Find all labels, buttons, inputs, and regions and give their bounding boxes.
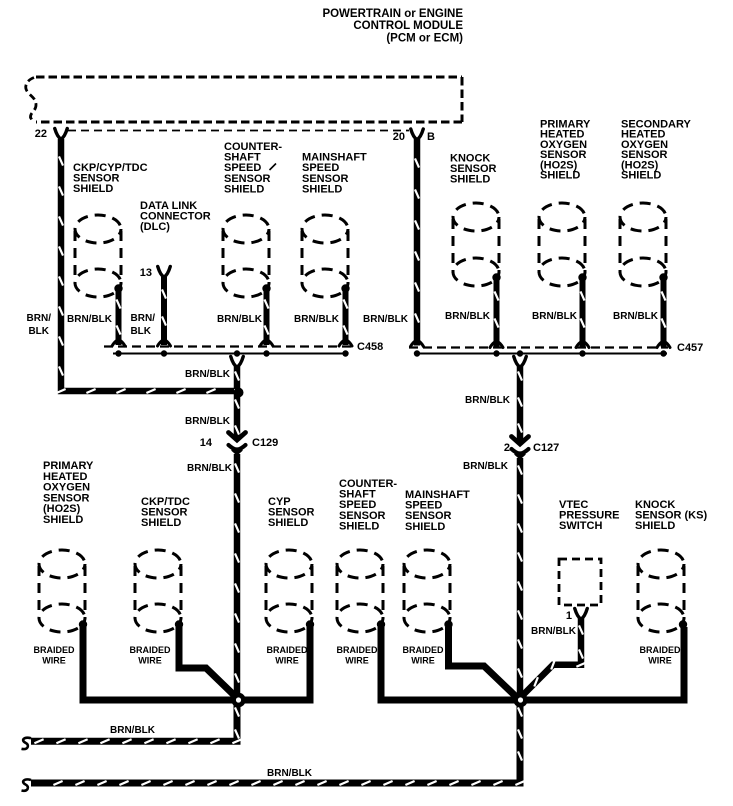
BRN/BLK label (C458 down-wire) — [185, 369, 231, 380]
BRN/BLK label (below C127) — [463, 461, 509, 472]
pin 20 label — [393, 131, 405, 143]
svg-text:BRN/BLK: BRN/BLK — [110, 725, 156, 736]
CYP sensor shield label — [268, 496, 315, 529]
node at secondary wire on C457 — [660, 350, 666, 356]
PCM connector pin-row dashed line — [68, 130, 409, 132]
wire BRN/BLK from junction to C129 — [235, 392, 239, 439]
mainshaft speed sensor shield label — [302, 152, 367, 196]
BRN/BLK label (above C129) — [185, 416, 231, 427]
wire BRN/BLK from secondary HO2S shield — [662, 279, 666, 347]
in-line connector C129 — [229, 433, 246, 454]
svg-text:14: 14 — [200, 437, 213, 449]
junction node (pin22 wire joins) — [234, 388, 244, 398]
VTEC pressure switch box (dashed) — [559, 559, 601, 605]
braided wire label (knock KS) — [639, 645, 681, 666]
CKP/CYP/TDC sensor shield label — [73, 162, 148, 195]
DLC pin 13 label — [140, 267, 152, 279]
wire BRN/BLK from primary HO2S shield — [581, 279, 585, 347]
svg-text:WIRE: WIRE — [411, 656, 435, 666]
node at DLC wire on C458 — [161, 350, 167, 356]
connector C458 dashed line — [104, 345, 352, 347]
fork terminal below C457 — [514, 357, 527, 368]
PCM/ECM module box (dashed) — [26, 77, 462, 123]
pin B wire foot at C457 — [411, 340, 424, 347]
secondary HO2S wire foot at C457 — [657, 341, 670, 348]
pin 14 label — [200, 437, 213, 449]
pin B fork terminal — [411, 129, 424, 140]
BRN/BLK label (mainshaft) — [294, 314, 340, 325]
svg-text:13: 13 — [140, 267, 152, 279]
knock sensor shield label — [450, 153, 497, 186]
svg-text:BRN/BLK: BRN/BLK — [187, 463, 233, 474]
break squiggle (bottom-left wire end) — [22, 738, 32, 749]
counter-shaft (lower) label — [339, 478, 397, 532]
shield mainshaft speed sensor (lower) — [404, 550, 453, 632]
svg-text:(DLC): (DLC) — [140, 221, 170, 233]
pin 2 label — [504, 442, 510, 454]
svg-text:20: 20 — [393, 131, 405, 143]
svg-text:WIRE: WIRE — [275, 656, 299, 666]
braided wire bus (lower-right group) — [381, 627, 684, 700]
shield knock sensor (upper) — [453, 203, 501, 286]
svg-text:BRN/BLK: BRN/BLK — [445, 311, 491, 322]
CKP/TDC sensor shield label — [141, 496, 190, 529]
node at primary wire on C457 — [579, 350, 585, 356]
svg-text:BRN/: BRN/ — [27, 313, 52, 324]
wire BRN/BLK to left harness (from lower-right junction) — [31, 700, 525, 785]
connector C458 label — [357, 341, 383, 353]
connector C458 bus line — [113, 353, 348, 355]
data link connector label — [140, 200, 211, 233]
svg-text:SHIELD: SHIELD — [302, 183, 342, 195]
knock sensor (KS) shield label — [635, 499, 707, 532]
shield CKP/TDC sensor (lower) — [135, 550, 183, 632]
svg-text:SHIELD: SHIELD — [450, 174, 490, 186]
wire BRN/BLK from DLC pin 13 — [162, 277, 166, 345]
BRN/BLK label (bottom-right wire) — [267, 768, 313, 779]
shield counter-shaft speed sensor (lower) — [337, 550, 385, 632]
svg-text:BRN/BLK: BRN/BLK — [217, 314, 263, 325]
shield primary HO2S (lower) — [39, 550, 87, 632]
connector C127 label — [533, 442, 559, 454]
svg-text:BRN/BLK: BRN/BLK — [67, 314, 113, 325]
BRN/BLK label (below C129) — [187, 463, 233, 474]
node at CKP wire on C458 — [115, 350, 121, 356]
node at mainshaft wire on C458 — [342, 350, 348, 356]
lower-right junction node — [513, 693, 527, 707]
shield secondary heated oxygen sensor (upper) — [620, 203, 668, 286]
node at pin B wire on C457 — [414, 350, 420, 356]
secondary HO2S shield label — [621, 119, 692, 182]
connector C457 label — [677, 342, 703, 354]
pin B label — [427, 131, 435, 143]
svg-text:22: 22 — [35, 128, 47, 140]
wire BRN/BLK from knock sensor shield — [495, 279, 499, 347]
svg-text:C129: C129 — [252, 437, 278, 449]
svg-text:BRN/BLK: BRN/BLK — [363, 314, 409, 325]
primary HO2S wire foot at C457 — [576, 341, 589, 348]
wire BRN/BLK from PCM pin B — [415, 139, 419, 346]
node at counter-shaft wire on C458 — [263, 350, 269, 356]
braided wire label (primary HO2S) — [33, 645, 75, 666]
svg-text:BRAIDED: BRAIDED — [129, 645, 171, 655]
svg-text:BRN/BLK: BRN/BLK — [613, 311, 659, 322]
svg-text:WIRE: WIRE — [42, 656, 66, 666]
connector C457 bus line — [414, 353, 667, 355]
knock wire foot at C457 — [490, 341, 503, 348]
BRN/BLK label (bottom-left wire) — [110, 725, 156, 736]
wire BRN/BLK from VTEC switch — [522, 618, 586, 697]
BRN/BLK label (pin 22 wire) — [27, 313, 52, 337]
BRN/BLK label (knock) — [445, 311, 491, 322]
svg-text:BRN/BLK: BRN/BLK — [185, 416, 231, 427]
svg-text:SHIELD: SHIELD — [141, 517, 181, 529]
braided wire label (mainshaft) — [402, 645, 444, 666]
PCM/ECM title label — [322, 8, 463, 44]
BRN/BLK label (VTEC wire) — [531, 626, 577, 637]
counter-shaft wire foot at C458 — [260, 340, 273, 347]
svg-text:BRN/BLK: BRN/BLK — [294, 314, 340, 325]
BRN/BLK label (primary HO2S) — [532, 311, 578, 322]
svg-text:SHIELD: SHIELD — [621, 170, 661, 182]
svg-text:POWERTRAIN or ENGINE: POWERTRAIN or ENGINE — [322, 8, 463, 20]
BRN/BLK label (above C127) — [465, 395, 511, 406]
svg-text:(PCM or ECM): (PCM or ECM) — [386, 32, 463, 44]
DLC pin 13 fork terminal — [158, 267, 171, 278]
shield knock sensor KS (lower) — [638, 550, 687, 632]
shield CKP/CYP/TDC sensor (upper) — [75, 215, 123, 297]
wire BRN/BLK from counter-shaft shield — [265, 290, 269, 345]
BRN/BLK label (counter-shaft) — [217, 314, 263, 325]
mainshaft wire foot at C458 — [339, 340, 352, 347]
shield counter-shaft speed sensor (upper) — [223, 215, 271, 297]
svg-text:C458: C458 — [357, 341, 383, 353]
break squiggle (bottom-right wire end) — [22, 779, 32, 790]
wire BRN/BLK from PCM pin 22 — [56, 139, 234, 393]
svg-text:BRN/BLK: BRN/BLK — [532, 311, 578, 322]
fork terminal below C458 — [231, 357, 244, 368]
pin 22 fork terminal — [55, 129, 68, 140]
braided wire label (counter-shaft) — [336, 645, 378, 666]
pin 22 label — [35, 128, 47, 140]
node at knock wire on C457 — [493, 350, 499, 356]
BRN/BLK label (pin B wire) — [363, 314, 409, 325]
CKP/CYP/TDC wire foot at C458 — [112, 340, 125, 347]
DLC wire foot at C458 — [158, 340, 171, 347]
wire BRN/BLK to left harness (from lower-left junction) — [31, 700, 242, 743]
svg-text:SHIELD: SHIELD — [405, 521, 445, 533]
node at down-wire on C457 — [517, 350, 523, 356]
svg-text:SHIELD: SHIELD — [635, 520, 675, 532]
svg-text:SHIELD: SHIELD — [540, 170, 580, 182]
svg-text:WIRE: WIRE — [138, 656, 162, 666]
wire BRN/BLK from C457 to C127 — [518, 366, 522, 443]
svg-text:BLK: BLK — [130, 326, 151, 337]
svg-text:SHIELD: SHIELD — [224, 183, 264, 195]
braided wire label (CYP) — [266, 645, 308, 666]
svg-text:SHIELD: SHIELD — [43, 514, 83, 526]
braided wire bus (lower-left group) — [83, 627, 310, 700]
svg-text:BRAIDED: BRAIDED — [266, 645, 308, 655]
node at down-wire on C458 — [234, 350, 240, 356]
braided wire label (CKP/TDC) — [129, 645, 171, 666]
wire BRN/BLK from C458 to junction node — [235, 366, 239, 389]
svg-text:CONTROL MODULE: CONTROL MODULE — [353, 20, 463, 32]
stray slash mark — [270, 164, 277, 171]
mainshaft (lower) label — [405, 489, 470, 533]
svg-text:BRAIDED: BRAIDED — [33, 645, 75, 655]
svg-text:2: 2 — [504, 442, 510, 454]
svg-text:BRN/BLK: BRN/BLK — [531, 626, 577, 637]
svg-text:BRN/BLK: BRN/BLK — [267, 768, 313, 779]
wire BRN/BLK from CKP/CYP/TDC shield — [117, 290, 121, 345]
wire BRN/BLK from C127 to lower-right junction — [518, 458, 522, 699]
svg-text:BRAIDED: BRAIDED — [336, 645, 378, 655]
wire BRN/BLK from C129 to lower-left junction — [235, 454, 239, 699]
shield primary heated oxygen sensor (upper) — [539, 203, 587, 286]
svg-text:BRN/: BRN/ — [131, 313, 156, 324]
svg-text:SHIELD: SHIELD — [339, 520, 379, 532]
svg-text:SWITCH: SWITCH — [559, 520, 602, 532]
svg-text:BRN/BLK: BRN/BLK — [463, 461, 509, 472]
BRN/BLK label (secondary HO2S) — [613, 311, 659, 322]
svg-text:WIRE: WIRE — [648, 656, 672, 666]
connector C457 dashed line — [409, 346, 668, 348]
wire BRN/BLK from mainshaft shield — [344, 290, 348, 345]
BRN/BLK label (CKP/CYP/TDC) — [67, 314, 113, 325]
svg-text:1: 1 — [566, 610, 572, 622]
svg-text:C457: C457 — [677, 342, 703, 354]
VTEC pressure switch label — [559, 499, 620, 532]
svg-text:WIRE: WIRE — [345, 656, 369, 666]
lower-left junction node — [231, 693, 245, 707]
counter-shaft speed sensor shield label — [224, 141, 282, 195]
svg-text:B: B — [427, 131, 435, 143]
svg-text:BRN/BLK: BRN/BLK — [185, 369, 231, 380]
svg-text:SHIELD: SHIELD — [73, 183, 113, 195]
in-line connector C127 — [512, 437, 529, 458]
BRN/BLK label (DLC wire) — [130, 313, 155, 337]
VTEC pin 1 fork terminal — [575, 609, 588, 620]
svg-text:SHIELD: SHIELD — [268, 517, 308, 529]
svg-text:BRAIDED: BRAIDED — [639, 645, 681, 655]
svg-text:BRN/BLK: BRN/BLK — [465, 395, 511, 406]
primary HO2S shield label — [540, 119, 591, 182]
svg-text:C127: C127 — [533, 442, 559, 454]
svg-text:BRAIDED: BRAIDED — [402, 645, 444, 655]
braided wire from mainshaft shield — [449, 627, 519, 699]
VTEC pin 1 label — [566, 610, 572, 622]
connector C129 label — [252, 437, 278, 449]
shield mainshaft speed sensor (upper) — [302, 215, 350, 297]
svg-text:BLK: BLK — [28, 326, 49, 337]
primary HO2S (lower) label — [43, 460, 94, 526]
shield CYP sensor (lower) — [266, 550, 314, 632]
braided wire from CKP/TDC shield — [179, 627, 237, 698]
